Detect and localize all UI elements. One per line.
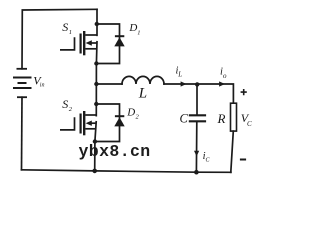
svg-text:D: D xyxy=(126,107,135,119)
svg-text:L: L xyxy=(138,86,147,102)
svg-text:C: C xyxy=(180,112,189,126)
svg-text:L: L xyxy=(177,70,182,78)
svg-text:1: 1 xyxy=(137,30,140,37)
svg-text:D: D xyxy=(128,22,137,34)
svg-text:in: in xyxy=(40,83,45,89)
svg-text:S: S xyxy=(62,20,68,34)
svg-text:1: 1 xyxy=(69,29,72,36)
svg-text:ybx8.cn: ybx8.cn xyxy=(79,142,151,161)
svg-text:o: o xyxy=(223,72,227,80)
svg-text:R: R xyxy=(217,111,226,126)
svg-text:S: S xyxy=(62,97,68,111)
svg-text:C: C xyxy=(247,120,252,128)
